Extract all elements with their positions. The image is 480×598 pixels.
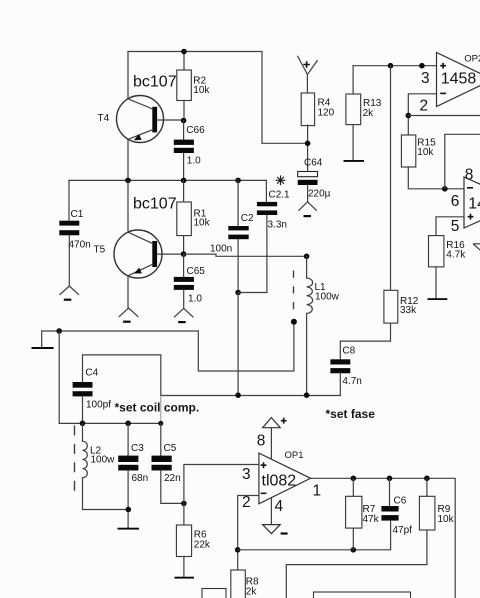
resistor R8	[231, 570, 259, 598]
resistor R7	[346, 478, 380, 550]
wire op-amp OP1 pin3 input	[184, 464, 259, 466]
dashed core line of L2	[74, 426, 76, 498]
svg-text:bc107: bc107	[133, 74, 177, 91]
chassis ground bar under R6	[175, 577, 195, 579]
node C4/L2 junction	[80, 421, 86, 427]
node R2 top junction	[181, 49, 187, 55]
svg-text:1458: 1458	[468, 196, 480, 213]
capacitor C66	[174, 121, 205, 181]
svg-text:2: 2	[420, 98, 429, 115]
svg-text:C65: C65	[187, 266, 206, 277]
wire R15 bottom to op-amp 2 pin6	[408, 167, 464, 189]
svg-text:47k: 47k	[363, 514, 380, 525]
wire vertical from ground rail to lower tank rail	[58, 331, 60, 423]
transistor T4	[98, 96, 164, 143]
capacitor C65	[174, 254, 205, 308]
svg-text:C2: C2	[241, 213, 254, 224]
wire op-amp2 pin5 to R16	[436, 217, 464, 236]
resistor R9	[419, 478, 454, 530]
svg-text:22k: 22k	[194, 540, 211, 551]
wire coil compensation rail	[161, 395, 340, 397]
node C3 junction	[125, 421, 131, 427]
svg-text:8: 8	[257, 432, 266, 449]
chassis ground stub left	[41, 331, 43, 347]
chassis ground bar under R13	[344, 160, 365, 162]
node T4 base junction	[181, 118, 187, 124]
capacitor C8	[330, 346, 361, 395]
wire pin6 feedback up and to right edge	[445, 134, 480, 189]
node C2 junction	[235, 178, 241, 184]
resistor R2	[177, 70, 192, 101]
wire 1458 pin2 inverting input	[408, 94, 436, 135]
component box bottom left partial	[202, 589, 226, 598]
wire T4 emitter	[127, 139, 129, 180]
wire OP1 pin8 supply	[270, 428, 272, 459]
wire OP1 pin1 output rail	[311, 478, 456, 598]
svg-text:120: 120	[318, 108, 335, 119]
capacitor C3	[118, 423, 148, 527]
resistor R12	[384, 290, 419, 323]
supply minus triangle symbol below OP1	[263, 525, 288, 535]
node R7 bottom junction	[351, 547, 357, 553]
wire OP1 pin2 inverting input down to R8 node	[238, 496, 259, 571]
svg-text:100w: 100w	[91, 454, 116, 465]
node C2 bottom junction	[235, 290, 241, 296]
svg-text:6: 6	[451, 193, 460, 210]
svg-text:33k: 33k	[400, 305, 417, 316]
resistor R1	[177, 180, 211, 254]
svg-text:100w: 100w	[315, 291, 340, 302]
svg-text:2: 2	[242, 494, 251, 511]
node L1 shield junction	[291, 319, 297, 325]
svg-text:C4: C4	[85, 368, 98, 379]
wire R2 top	[183, 52, 185, 71]
node C2 branch on coil rail	[235, 392, 241, 398]
svg-text:bc107: bc107	[133, 196, 177, 213]
wire T4 collector	[127, 52, 129, 99]
svg-text:100pf: 100pf	[86, 400, 111, 411]
svg-text:C6: C6	[394, 496, 407, 507]
node C66/R1 junction	[181, 178, 187, 184]
node rail junction to lower tank	[56, 328, 62, 334]
wire R2 bottom	[183, 101, 185, 121]
resistor R15	[401, 135, 436, 167]
supply plus triangle symbol above OP1	[263, 418, 287, 428]
wire op-amp supply rail (R13 to 1458 pin3)	[353, 65, 436, 67]
wire ground rail staircase to L1 shield dot	[198, 322, 294, 371]
svg-text:5: 5	[451, 218, 460, 235]
chassis ground bar under R16	[428, 298, 448, 300]
svg-text:3: 3	[421, 70, 430, 87]
wire T5 base	[157, 253, 184, 255]
svg-text:220µ: 220µ	[308, 189, 331, 200]
ground minus symbol under C1	[60, 286, 79, 301]
wire faint link under text	[160, 396, 162, 424]
capacitor C2.1 trimmer	[257, 180, 290, 230]
resistor R16	[429, 236, 467, 299]
svg-text:C5: C5	[164, 443, 177, 454]
node L1 top junction	[304, 253, 310, 259]
svg-text:10k: 10k	[438, 514, 455, 525]
resistor R13	[346, 66, 382, 161]
wire R9 bottom to image bottom	[286, 530, 427, 598]
antenna plus supply symbol	[298, 56, 318, 93]
op-amp U2 1458 OP2	[420, 53, 480, 115]
wire T5 base node to L1 (with jog)	[184, 254, 307, 256]
ground minus symbol under C65	[174, 308, 193, 323]
node C5/R6 junction	[181, 501, 187, 507]
svg-text:1.0: 1.0	[188, 294, 202, 305]
partial triangle symbol at right edge	[473, 244, 480, 251]
inductor L2	[83, 423, 129, 509]
capacitor C2	[210, 180, 254, 292]
wire OP1 pin4	[270, 498, 272, 525]
op-amp U3 1458 second half	[451, 167, 480, 236]
chassis ground bar left	[32, 347, 54, 349]
op-amp U1 tl082 OP1	[259, 450, 311, 504]
inductor L1	[307, 256, 340, 395]
node L1 branch on coil rail	[304, 392, 310, 398]
svg-text:8: 8	[465, 167, 474, 184]
svg-text:C1: C1	[71, 209, 84, 220]
svg-text:10k: 10k	[193, 85, 210, 96]
dashed core line of L1	[293, 271, 295, 311]
svg-text:4: 4	[275, 498, 284, 515]
svg-text:*set coil comp.: *set coil comp.	[115, 401, 200, 415]
node R7 top junction	[351, 476, 357, 482]
node R9 top junction	[424, 476, 430, 482]
node junction on pin3 wire	[419, 63, 425, 69]
node R4/C64 junction	[305, 141, 311, 147]
svg-text:47pf: 47pf	[393, 525, 413, 536]
wire T5 collector	[127, 180, 129, 232]
svg-text:*set fase: *set fase	[326, 407, 376, 421]
wire C2 bottom to C2.1 bottom	[238, 215, 267, 293]
svg-text:10k: 10k	[194, 218, 211, 229]
svg-text:T4: T4	[98, 113, 110, 124]
node C5 corner junction	[158, 421, 163, 426]
svg-text:C2.1: C2.1	[269, 190, 291, 201]
wire long feedback vertical to R12	[390, 66, 392, 291]
wire mid rail (T4/T5 emitter rail)	[69, 179, 266, 181]
svg-text:2k: 2k	[246, 587, 258, 598]
resistor R6	[176, 525, 211, 577]
svg-text:T5: T5	[94, 245, 106, 256]
component box bottom right partial	[314, 592, 411, 598]
capacitor C1	[59, 180, 90, 286]
svg-text:tl082: tl082	[262, 473, 297, 490]
ground minus symbol under T5	[119, 308, 138, 323]
node pin2/R8 junction	[235, 547, 241, 553]
trimmer star symbol	[276, 175, 286, 185]
svg-text:1458: 1458	[441, 71, 477, 88]
wire left ground rail	[42, 330, 199, 332]
transistor T5	[94, 230, 163, 278]
svg-text:C66: C66	[186, 125, 205, 136]
svg-text:68n: 68n	[132, 473, 149, 484]
capacitor C6	[381, 478, 412, 536]
svg-text:3.3n: 3.3n	[268, 220, 287, 231]
svg-text:1: 1	[313, 483, 322, 500]
svg-text:1.0: 1.0	[187, 156, 201, 167]
svg-text:22n: 22n	[164, 473, 181, 484]
node L2/C3 bottom junction	[126, 507, 132, 513]
wire T5 emitter	[127, 276, 129, 308]
wire pin2 node to C6 bottom	[238, 521, 391, 550]
wire coil rail left riser to C4	[83, 355, 161, 396]
wire C2 node down to coil rail	[237, 293, 239, 396]
svg-text:C8: C8	[342, 346, 355, 357]
capacitor C64 electrolytic	[298, 158, 331, 202]
wire R4 bottom to C64	[307, 125, 309, 172]
capacitor C5	[152, 423, 184, 503]
ground minus symbol under C64	[299, 202, 317, 217]
node T4 emitter junction	[125, 178, 131, 184]
svg-text:2k: 2k	[363, 108, 375, 119]
node long feedback vertical junction	[388, 63, 394, 69]
wire R12 bottom to C8	[340, 323, 390, 359]
resistor R4	[301, 93, 334, 126]
svg-text:4.7n: 4.7n	[342, 376, 361, 387]
node pin6 junction	[442, 186, 448, 192]
wire pin3 node vertical through R6	[183, 465, 185, 526]
svg-text:4.7k: 4.7k	[446, 250, 466, 261]
svg-text:100n: 100n	[210, 244, 232, 255]
node 1458 pin2 feedback junction	[406, 113, 412, 119]
wire T4 base	[157, 119, 184, 121]
capacitor C4	[73, 368, 112, 424]
wire feedback to right edge	[408, 115, 480, 117]
wire top supply rail from T4 collector to R4 node	[128, 52, 308, 144]
wire lower tank rail	[59, 422, 161, 424]
svg-text:3: 3	[242, 466, 251, 483]
svg-text:C64: C64	[304, 158, 323, 169]
svg-text:C3: C3	[131, 443, 144, 454]
svg-text:470n: 470n	[69, 240, 91, 251]
svg-text:OP2: OP2	[464, 54, 480, 65]
chassis ground bar under C3	[118, 528, 140, 530]
svg-text:10k: 10k	[417, 147, 434, 158]
svg-text:OP1: OP1	[285, 450, 304, 461]
node T5 base junction	[181, 251, 187, 257]
node C6 top junction	[387, 476, 393, 482]
